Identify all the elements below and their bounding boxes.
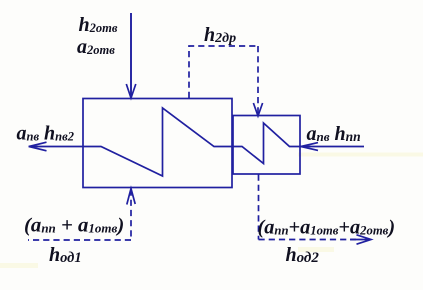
arrowhead: drain into small box (down, open) [253,103,262,116]
arrowhead: condensate in (right edge of small box, open) [301,143,318,151]
wire: drain h2dr dashed elbow [189,46,258,98]
wire: condensate od2 dashed (bottom-right) [259,175,357,240]
arrowhead: od2 out (right, open) [350,235,371,244]
wire: condensate od1 dashed (bottom-left) [28,190,131,241]
wire: feedwater line with zigzag through large box [29,108,365,176]
heater box PND-1 (large) [83,99,232,188]
heater box PND-2 (small) [233,116,300,175]
arrowhead: feedwater out (left, open) [29,142,47,151]
wire: extraction 2 steam line (vertical solid, top) [130,13,132,98]
faint highlighter smudge bottom-left [0,263,38,268]
arrowhead: od1 into large box (up, open) [127,189,135,205]
arrowhead: extraction 2 into large box (down, open) [126,84,136,98]
faint highlighter smudge right [298,153,423,157]
faint highlighter smudge bottom-right [298,247,334,252]
